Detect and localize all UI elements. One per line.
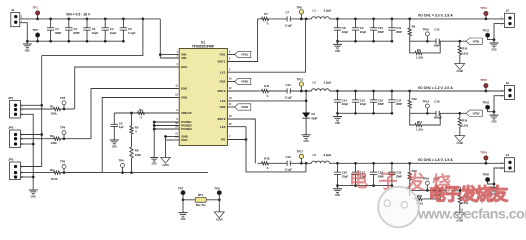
- resistor R16: [258, 156, 270, 170]
- wire R2 to U1 EN2: [61, 89, 180, 139]
- svg-text:AGND: AGND: [216, 219, 223, 222]
- wire R3 to U1 EN3: [61, 98, 180, 173]
- svg-text:R12: R12: [412, 97, 418, 101]
- svg-text:TP12: TP12: [482, 28, 489, 32]
- svg-text:TP13: TP13: [296, 77, 303, 81]
- svg-text:PG: PG: [221, 138, 226, 142]
- capacitor C8: [334, 18, 349, 43]
- wire ground bus B: [20, 114, 35, 190]
- svg-text:TP3: TP3: [60, 96, 66, 100]
- label VO CH3: [418, 158, 454, 162]
- svg-text:EN2: EN2: [181, 87, 187, 91]
- wire switch node: [290, 18, 311, 21]
- test point TP9: [214, 186, 221, 201]
- resistor R7: [258, 12, 269, 26]
- capacitor C7: [285, 11, 292, 28]
- capacitor C2: [65, 18, 79, 43]
- wire VOUT2 cap ground rail: [338, 112, 392, 114]
- svg-text:GND: GND: [25, 50, 30, 52]
- svg-text:2.2µH: 2.2µH: [324, 81, 332, 85]
- svg-text:C12: C12: [434, 28, 440, 32]
- test point TP3: [60, 96, 66, 110]
- svg-text:LX1: LX1: [220, 70, 226, 74]
- svg-text:LX2: LX2: [220, 99, 226, 103]
- svg-text:TP6: TP6: [118, 159, 124, 163]
- resistor R20 lower loop: [410, 190, 441, 205]
- capacitor C12: [410, 28, 466, 48]
- svg-text:LX3: LX3: [220, 125, 226, 129]
- resistor R3: [20, 168, 61, 181]
- connector J2: [501, 9, 515, 28]
- capacitor C23: [388, 162, 402, 187]
- svg-text:J3: J3: [506, 81, 510, 85]
- svg-text:TP17: TP17: [296, 150, 303, 154]
- wire BST2: [227, 90, 257, 92]
- resistor R9 lower loop: [410, 41, 441, 59]
- resistor R2: [20, 134, 61, 145]
- wire JP3 pin1: [20, 166, 42, 168]
- svg-text:R14: R14: [462, 119, 468, 123]
- svg-text:J4: J4: [506, 153, 510, 157]
- svg-text:NT1: NT1: [198, 193, 204, 197]
- svg-text:R20: R20: [417, 194, 423, 198]
- capacitor C15: [352, 90, 367, 115]
- wire VOUT3 cap ground rail: [338, 185, 392, 187]
- ground input: [23, 41, 32, 52]
- svg-text:GND: GND: [152, 164, 157, 166]
- svg-text:R10: R10: [462, 47, 468, 51]
- test point TP17: [296, 150, 303, 164]
- resistor R12: [408, 90, 417, 114]
- svg-text:子: 子: [444, 185, 461, 204]
- svg-text:DNP: DNP: [55, 31, 61, 35]
- svg-text:L3: L3: [313, 153, 317, 157]
- svg-text:VFB3: VFB3: [241, 105, 248, 109]
- svg-text:100k: 100k: [51, 111, 58, 115]
- test point TP11: [480, 6, 488, 20]
- svg-text:TP16: TP16: [482, 100, 489, 104]
- capacitor C10: [370, 18, 384, 43]
- svg-text:TP5: TP5: [60, 160, 66, 164]
- svg-text:VIN: VIN: [181, 56, 186, 60]
- svg-text:J1: J1: [11, 8, 15, 12]
- svg-text:FB2: FB2: [220, 80, 226, 84]
- wire JP1 pin1: [20, 104, 42, 106]
- test point TP10: [422, 27, 429, 42]
- resistor R10: [458, 40, 468, 64]
- svg-text:R7: R7: [264, 12, 268, 16]
- svg-text:680pF: 680pF: [434, 116, 442, 120]
- svg-text:TP9: TP9: [214, 186, 220, 190]
- wire VIN rail: [38, 18, 161, 20]
- svg-text:DNP: DNP: [396, 102, 402, 106]
- test point TP4: [60, 126, 66, 140]
- svg-text:PAD: PAD: [181, 138, 188, 142]
- test point TP13: [296, 77, 303, 91]
- svg-text:TP20: TP20: [482, 173, 489, 177]
- svg-text:DNP: DNP: [73, 31, 79, 35]
- ground AGND VFB1: [455, 64, 465, 74]
- svg-text:GND: GND: [31, 196, 36, 198]
- label VIN: [66, 13, 91, 17]
- wire switch node: [290, 162, 311, 165]
- svg-text:电: 电: [429, 184, 446, 204]
- svg-text:R8: R8: [412, 25, 416, 29]
- capacitor C20: [334, 162, 349, 187]
- svg-text:R11: R11: [264, 84, 269, 88]
- inductor L3: [312, 153, 332, 163]
- wire J3 pin2 to ground: [490, 96, 505, 124]
- diode D1: [302, 91, 317, 135]
- svg-text:AGND: AGND: [162, 164, 169, 167]
- svg-text:JP2: JP2: [8, 126, 14, 130]
- svg-text:DNP: DNP: [396, 30, 402, 34]
- wire JP2 pin1: [20, 134, 42, 136]
- resistor R18: [408, 162, 417, 190]
- ground VOUT2 caps: [333, 113, 342, 125]
- resistor R19: [458, 189, 468, 213]
- svg-text:Net-Tie: Net-Tie: [196, 203, 206, 207]
- svg-text:GND: GND: [491, 49, 496, 51]
- ground AGND VFB2: [455, 136, 465, 146]
- wire R1 to U1 EN1: [61, 67, 180, 109]
- ground AGND TP9: [214, 200, 224, 222]
- svg-text:C18: C18: [434, 100, 440, 104]
- svg-text:VREG5: VREG5: [181, 111, 192, 115]
- capacitor C21: [352, 162, 367, 187]
- svg-text:0.1µF: 0.1µF: [128, 31, 136, 35]
- svg-text:DNP: DNP: [434, 44, 440, 48]
- svg-text:PGND3: PGND3: [181, 127, 192, 131]
- wire VOUT2 rail: [330, 90, 505, 92]
- wire VOUT1 rail: [330, 18, 505, 20]
- svg-text:AGND: AGND: [456, 70, 463, 73]
- svg-text:TP1: TP1: [33, 5, 39, 9]
- inductor L1: [312, 9, 332, 19]
- label VO CH1: [418, 14, 454, 18]
- svg-text:AGND: AGND: [456, 142, 463, 145]
- connector J4: [501, 153, 515, 172]
- wire VIN bus to jumpers: [40, 56, 43, 167]
- IC U1 TPS65251PWP triple buck converter: [175, 41, 232, 146]
- net-tie NT1: [183, 193, 219, 207]
- test point TP6: [118, 159, 124, 174]
- svg-text:VFB1: VFB1: [241, 53, 248, 57]
- wire BST1: [227, 19, 257, 62]
- ground TP7: [179, 200, 188, 221]
- svg-text:22µF: 22µF: [360, 30, 367, 34]
- svg-text:TP8: TP8: [296, 5, 302, 9]
- wire U1 LX2 to diode: [227, 100, 306, 102]
- test point TP16: [482, 100, 495, 113]
- svg-text:2.2µH: 2.2µH: [324, 153, 332, 157]
- connector JP1: [8, 96, 23, 118]
- wire J1 pin2 to ground rail: [20, 23, 28, 42]
- svg-text:VFB2: VFB2: [473, 111, 480, 115]
- svg-text:GND: GND: [335, 51, 340, 53]
- capacitor C11: [388, 18, 402, 43]
- capacitor C9: [352, 18, 367, 43]
- test point TP12: [482, 28, 495, 41]
- net flag VFB1: [466, 38, 482, 44]
- capacitor C6: [111, 113, 124, 140]
- svg-text:GND: GND: [112, 146, 117, 148]
- test point TP5: [60, 160, 66, 174]
- wire R11 to C13: [269, 90, 288, 92]
- wire U1 PG: [227, 138, 247, 141]
- svg-text:0.1µF: 0.1µF: [285, 168, 292, 172]
- svg-text:VO CH3 = 1.8 V, 1.5 A: VO CH3 = 1.8 V, 1.5 A: [418, 158, 454, 162]
- svg-text:C19: C19: [286, 155, 292, 159]
- svg-text:3.3µH: 3.3µH: [324, 9, 332, 13]
- svg-text:VFB2: VFB2: [241, 80, 248, 84]
- svg-text:100k: 100k: [135, 153, 142, 157]
- svg-text:电: 电: [349, 169, 368, 192]
- test point TP14: [422, 99, 429, 114]
- svg-text:R1: R1: [50, 104, 54, 108]
- svg-text:GND: GND: [335, 195, 340, 197]
- capacitor C13: [285, 83, 292, 100]
- resistor R14: [458, 112, 468, 136]
- wire VOUT1 cap ground rail: [338, 40, 392, 42]
- svg-text:GND: GND: [335, 123, 340, 125]
- capacitor C24: [410, 177, 445, 197]
- wire LX1: [227, 19, 305, 72]
- svg-text:TP14: TP14: [422, 99, 429, 103]
- svg-text:2.21k: 2.21k: [461, 52, 468, 56]
- wire JP3 pin3: [20, 176, 33, 178]
- svg-text:TP2: TP2: [33, 28, 39, 32]
- svg-text:R3: R3: [50, 168, 54, 172]
- svg-text:FB1: FB1: [220, 53, 226, 57]
- svg-text:0.1µF: 0.1µF: [285, 95, 292, 99]
- svg-text:BST2: BST2: [218, 89, 226, 93]
- net flag VFB3 at U1: [227, 104, 250, 110]
- svg-text:2.21k: 2.21k: [461, 124, 468, 128]
- wire R7 to C7: [269, 18, 288, 20]
- wire JP2 pin3: [20, 143, 33, 145]
- test point TP7: [178, 186, 185, 201]
- capacitor C3: [83, 18, 98, 43]
- svg-text:J2: J2: [506, 9, 510, 13]
- svg-text:DNP: DNP: [378, 30, 384, 34]
- svg-text:TP11: TP11: [480, 6, 487, 10]
- svg-text:BST1: BST1: [218, 60, 226, 64]
- capacitor C17: [388, 90, 402, 115]
- resistor R8: [408, 18, 416, 42]
- ground U1 GND: [150, 158, 158, 166]
- svg-text:22µF: 22µF: [342, 102, 349, 106]
- test point TP20: [482, 173, 495, 186]
- wire VIN rail to U1 VIN pins: [159, 19, 179, 58]
- svg-text:EN3: EN3: [181, 96, 187, 100]
- resistor R1: [20, 104, 61, 115]
- resistor R17 lower loop: [410, 113, 441, 131]
- test point TP2: [33, 28, 40, 43]
- wire soft-start net: [61, 172, 209, 174]
- svg-text:DNP: DNP: [378, 102, 384, 106]
- svg-text:JP1: JP1: [8, 96, 14, 100]
- wire VIN bus drop: [42, 18, 145, 56]
- svg-text:R17: R17: [417, 120, 423, 124]
- svg-text:GND: GND: [491, 122, 496, 124]
- ground AGND VFB3: [455, 213, 465, 223]
- wire J2 pin2 to ground: [490, 24, 505, 52]
- net flag VFB3: [444, 187, 460, 193]
- wire U1 PGND pins: [153, 121, 179, 158]
- svg-text:22µF: 22µF: [342, 30, 349, 34]
- connector J1: [11, 8, 23, 27]
- svg-text:1.33k: 1.33k: [416, 56, 423, 60]
- wire input ground rail: [26, 40, 123, 43]
- ground VOUT1 caps: [333, 41, 342, 53]
- svg-text:1.21k: 1.21k: [416, 128, 423, 132]
- svg-text:R9: R9: [417, 48, 421, 52]
- wire BST3: [227, 119, 255, 163]
- svg-text:烧: 烧: [476, 185, 493, 204]
- svg-text:www.elecfans.com: www.elecfans.com: [417, 206, 526, 222]
- capacitor C4: [102, 18, 117, 43]
- svg-text:R16: R16: [264, 156, 270, 160]
- svg-text:R2: R2: [50, 134, 54, 138]
- svg-text:C13: C13: [286, 83, 292, 87]
- net flag VFB2: [466, 110, 482, 116]
- svg-text:22µF: 22µF: [342, 174, 349, 178]
- capacitor C14: [334, 90, 349, 115]
- resistor R6: [130, 134, 142, 174]
- svg-text:L2: L2: [313, 81, 317, 85]
- connector J3: [501, 81, 515, 100]
- connector JP2: [8, 126, 23, 148]
- svg-text:JP3: JP3: [8, 158, 14, 162]
- capacitor C22: [370, 162, 384, 187]
- ground VOUT3 caps: [333, 186, 342, 198]
- capacitor C16: [370, 90, 384, 115]
- svg-text:GND: GND: [304, 141, 309, 143]
- svg-text:22µF: 22µF: [360, 102, 367, 106]
- svg-text:FB3: FB3: [220, 105, 226, 109]
- svg-text:BST3: BST3: [218, 117, 226, 121]
- resistor R11: [258, 84, 270, 98]
- wire U1 AGND pad: [164, 135, 179, 157]
- wire VOUT3 rail: [330, 162, 505, 164]
- svg-text:VO CH1 = 3.3 V, 1.8 A: VO CH1 = 3.3 V, 1.8 A: [418, 14, 454, 18]
- net flag VFB2 at U1: [227, 78, 250, 84]
- ground jumpers: [29, 190, 38, 198]
- test point TP1: [33, 5, 40, 20]
- ground C6: [110, 140, 119, 148]
- svg-text:VO CH2 = 1.2 V, 2.0 A: VO CH2 = 1.2 V, 2.0 A: [418, 86, 454, 90]
- svg-text:100k: 100k: [51, 141, 58, 145]
- capacitor C5: [120, 18, 136, 43]
- wire J1 pin1 to VIN rail: [20, 18, 38, 20]
- svg-text:TP10: TP10: [422, 27, 429, 31]
- svg-text:R4: R4: [139, 108, 143, 112]
- svg-text:GND: GND: [180, 219, 185, 221]
- capacitor C19: [285, 155, 292, 172]
- svg-text:友: 友: [491, 184, 508, 204]
- capacitor C18: [410, 100, 466, 120]
- svg-text:TP15: TP15: [480, 78, 487, 82]
- resistor R4: [138, 108, 145, 119]
- svg-text:TPS65251PWP: TPS65251PWP: [192, 45, 215, 49]
- wire switch node: [290, 90, 311, 93]
- capacitor C1: [47, 18, 61, 43]
- wire LX3: [227, 127, 306, 172]
- label VO CH2: [418, 86, 454, 90]
- svg-text:L1: L1: [313, 9, 317, 13]
- wire U1 VREG5: [114, 112, 179, 114]
- inductor L2: [312, 81, 332, 91]
- connector JP3: [8, 158, 23, 180]
- svg-text:VFB1: VFB1: [473, 39, 480, 43]
- svg-text:DNP: DNP: [312, 116, 318, 120]
- svg-text:10.0k: 10.0k: [51, 177, 58, 181]
- wire J4 pin2 to ground: [490, 168, 505, 196]
- svg-text:10µF: 10µF: [92, 31, 99, 35]
- svg-text:TP4: TP4: [60, 126, 66, 130]
- svg-text:TP7: TP7: [178, 186, 184, 190]
- svg-text:TP19: TP19: [480, 150, 487, 154]
- test point TP8: [296, 5, 303, 19]
- svg-text:EN1: EN1: [181, 65, 187, 69]
- ground D1: [302, 135, 311, 143]
- wire R16 to C19: [269, 162, 288, 164]
- svg-text:10µF: 10µF: [110, 31, 117, 35]
- svg-text:0.1µF: 0.1µF: [285, 23, 292, 27]
- test point TP19: [480, 150, 488, 164]
- resistor R5: [130, 112, 139, 134]
- net flag VFB1 at U1: [227, 51, 250, 57]
- svg-text:VIN = 4.5 - 18 V: VIN = 4.5 - 18 V: [66, 13, 91, 17]
- svg-text:C7: C7: [286, 11, 290, 15]
- test point TP18: [422, 177, 429, 192]
- ground U1 AGND: [161, 158, 171, 167]
- svg-text:1µF: 1µF: [119, 125, 124, 129]
- test point TP15: [480, 78, 488, 92]
